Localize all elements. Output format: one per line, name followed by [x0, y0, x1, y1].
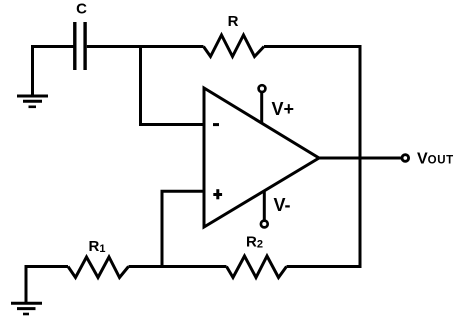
resistor R: [204, 35, 265, 57]
svg-text:R1: R1: [89, 238, 106, 255]
wire top-left to capacitor: [33, 47, 74, 97]
svg-text:R2: R2: [246, 233, 263, 250]
minus sign (inverting input): [213, 123, 219, 126]
V- terminal wire: [263, 191, 266, 221]
ground (top-left): [17, 96, 48, 107]
resistor R1: [68, 257, 129, 278]
Vout terminal: [402, 155, 409, 162]
wire capacitor to resistor R: [87, 45, 204, 48]
resistor R2: [227, 256, 287, 278]
svg-text:R: R: [228, 13, 239, 30]
svg-text:V+: V+: [272, 99, 295, 119]
wire bottom-left to R1: [26, 267, 68, 303]
capacitor C: [75, 22, 85, 70]
svg-text:C: C: [76, 1, 87, 18]
V+ terminal: [259, 85, 266, 92]
wire junction to inverting input: [141, 45, 205, 125]
wire junction to non-inverting input: [162, 191, 204, 266]
ground (bottom-left): [11, 303, 42, 314]
V- terminal: [261, 221, 268, 228]
wire R to feedback corner, down right side, to R2: [264, 47, 360, 267]
svg-text:V-: V-: [274, 195, 291, 215]
svg-text:VOUT: VOUT: [417, 150, 454, 167]
op-amp U1: [204, 88, 319, 227]
wire V+ to op-amp: [260, 92, 263, 124]
output wire: [319, 157, 402, 160]
wire R1 to R2: [129, 265, 227, 268]
plus sign (non-inverting input): [213, 189, 222, 199]
